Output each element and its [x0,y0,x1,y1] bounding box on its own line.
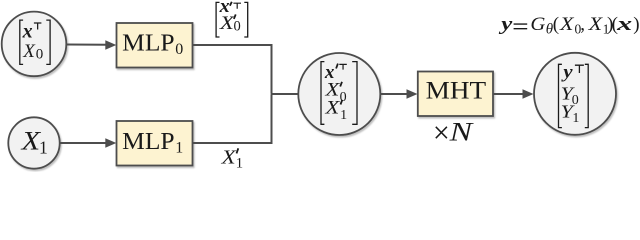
svg-text:MLP: MLP [122,129,174,155]
block MHT [418,72,493,117]
wire arrow from input circle to MLP0 [67,40,116,50]
svg-text:1: 1 [236,155,244,171]
wire arrow from MHT to output circle [493,89,534,99]
label xN repeat count [436,117,474,147]
svg-text:0: 0 [572,93,579,108]
svg-text:G: G [530,14,545,35]
svg-text:MHT: MHT [426,77,487,104]
svg-text:MLP: MLP [122,31,174,57]
wire from MLP0 to merge corner [193,45,272,93]
svg-text:x: x [22,21,33,43]
svg-text:X: X [22,41,36,62]
svg-text:1: 1 [39,138,48,158]
label X1' on bottom wire [221,147,244,171]
svg-text:X: X [221,147,237,168]
svg-text:1: 1 [340,108,347,123]
svg-text:X: X [324,81,340,101]
svg-text:,: , [580,14,585,35]
node concat circle [x'^T; X0'; X1'] [298,53,380,135]
block MLP1 [117,121,193,166]
wire arrow from X1 circle to MLP1 [60,138,117,148]
block MLP0 [117,23,193,68]
svg-text:0: 0 [234,19,241,35]
equation y = G_theta(X0, X1)(x) [499,14,640,37]
svg-text:X: X [587,14,603,35]
svg-text:N: N [448,117,473,147]
wire arrow from concat circle to MHT [381,89,418,99]
node input vector circle [x^T; X0] [2,12,67,77]
svg-text:0: 0 [175,41,183,58]
svg-text:): ) [633,14,639,35]
svg-text:y: y [561,62,574,82]
wire from junction into concat circle [271,93,299,95]
svg-text:1: 1 [175,140,183,157]
svg-text:X: X [559,14,575,35]
node X1 circle [8,117,59,168]
svg-text:X: X [324,99,340,119]
svg-text:(: ( [553,14,559,35]
node output circle [y^T; Y0; Y1] [534,53,616,135]
wire from MLP1 to merge corner [193,95,272,143]
label vector [x'^T; X0'] on top wire [216,0,248,37]
svg-text:y: y [499,14,513,35]
svg-text:x: x [616,14,633,35]
svg-text:0: 0 [36,46,44,62]
svg-text:1: 1 [572,111,579,126]
